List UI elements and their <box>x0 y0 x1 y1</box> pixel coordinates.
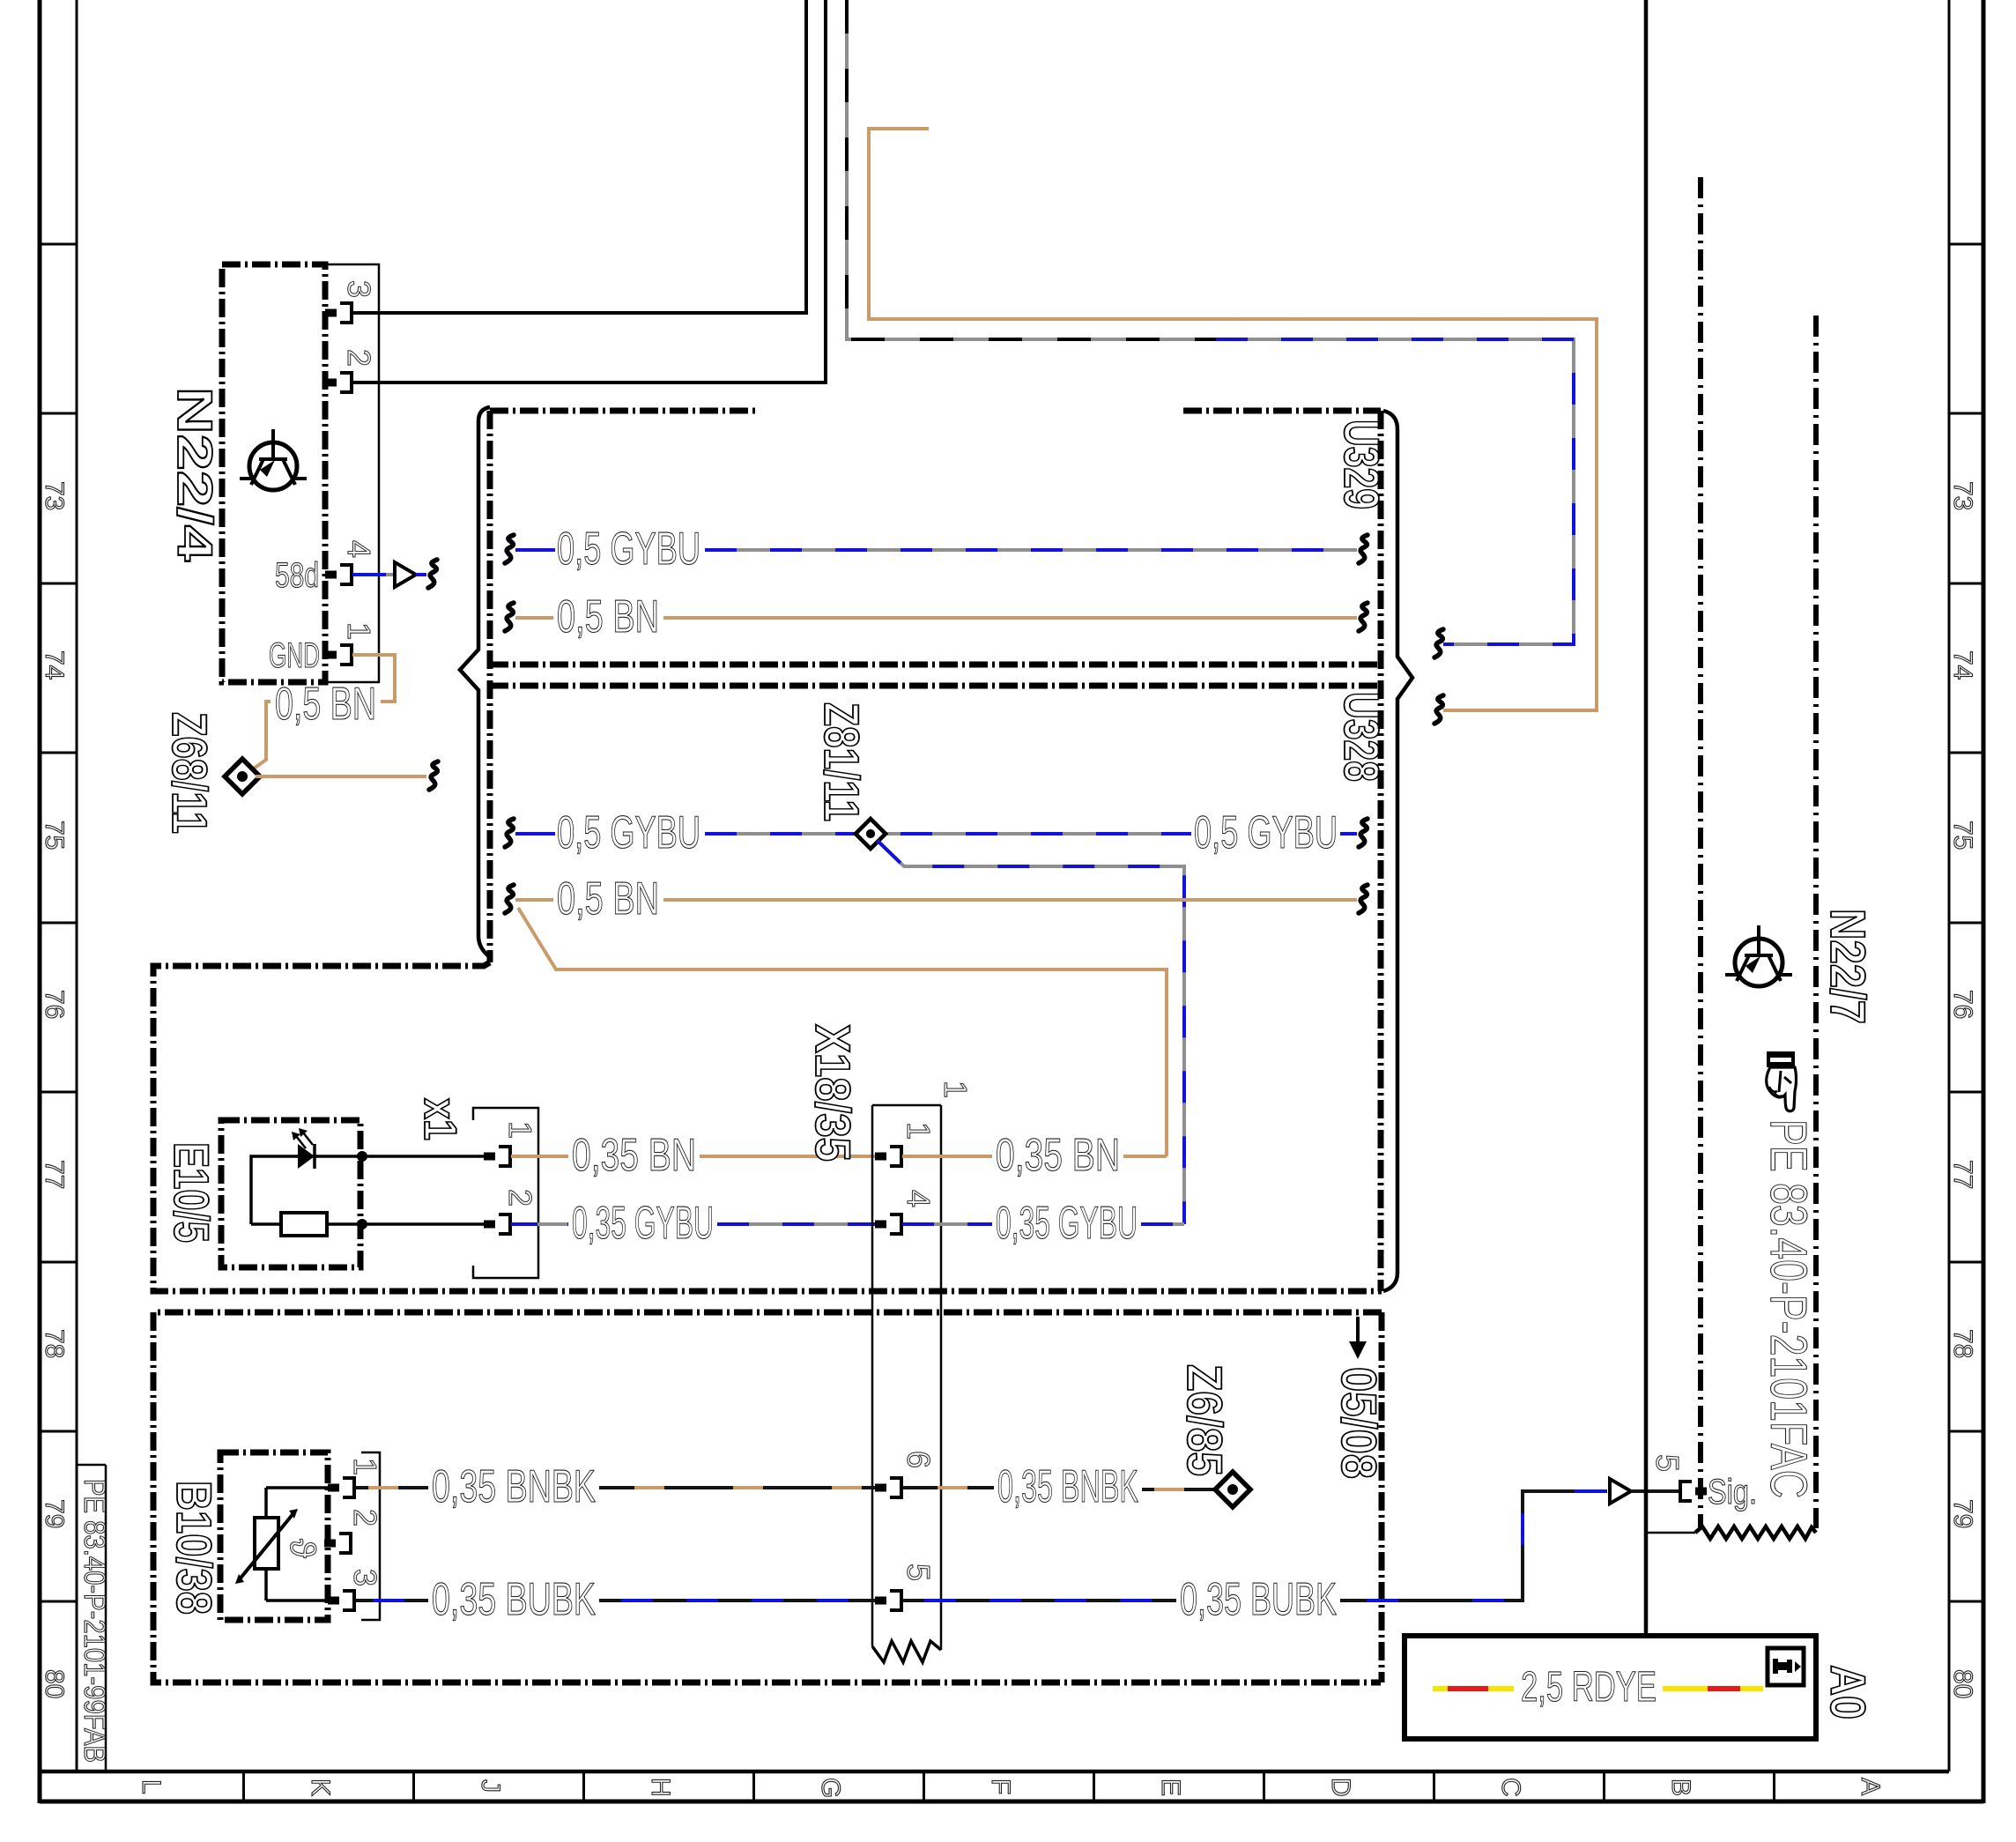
ground connector Z68/11 <box>162 712 438 834</box>
svg-text:05/08: 05/08 <box>1331 1367 1387 1479</box>
svg-text:0,35 BUBK: 0,35 BUBK <box>1180 1574 1337 1625</box>
LED branch <box>251 1156 362 1224</box>
svg-text:0,5 GYBU: 0,5 GYBU <box>557 807 700 858</box>
wire BN from top (brown) <box>869 129 1597 724</box>
svg-text:N22/4: N22/4 <box>167 387 223 561</box>
svg-text:GND: GND <box>269 636 320 675</box>
dash-dot frame (upper equipment area) <box>153 962 1382 1291</box>
svg-text:76: 76 <box>40 990 69 1019</box>
connector x1 <box>414 1098 538 1278</box>
svg-text:B: B <box>1666 1779 1695 1796</box>
wire 0,35 BN from x1 pin1 to X18/35 pin1 <box>511 1130 875 1181</box>
legend box A0 (wire colour sample 2,5 RDYE) <box>1405 1636 1876 1739</box>
indicator lamp symbol (transistor-style pictogram) <box>240 429 307 490</box>
svg-text:0,5 BN: 0,5 BN <box>557 873 659 925</box>
svg-text:ϑ: ϑ <box>283 1539 322 1558</box>
NTC resistor with arrow <box>264 1488 268 1601</box>
svg-text:G: G <box>816 1778 845 1798</box>
svg-text:0,35 GYBU: 0,35 GYBU <box>996 1198 1138 1249</box>
svg-text:74: 74 <box>1948 650 1977 680</box>
svg-text:K: K <box>306 1779 335 1796</box>
svg-text:79: 79 <box>1948 1499 1977 1528</box>
svg-text:0,5 BN: 0,5 BN <box>557 591 659 642</box>
svg-text:X18/35: X18/35 <box>805 1024 861 1162</box>
left brace of harness frames <box>460 407 490 957</box>
svg-text:1: 1 <box>341 622 377 640</box>
wire 0,5 BN inside U328 <box>505 873 1367 925</box>
shared dash-dot edges of harness frames <box>490 411 1381 1291</box>
svg-text:2: 2 <box>502 1189 538 1207</box>
svg-text:0,5 BN: 0,5 BN <box>275 679 376 730</box>
wire 0,5 GYBU inside U329 <box>505 524 1367 575</box>
svg-text:2,5 RDYE: 2,5 RDYE <box>1521 1664 1657 1711</box>
resistor branch <box>251 1222 362 1226</box>
svg-text:3: 3 <box>341 280 377 298</box>
svg-text:0,35 BUBK: 0,35 BUBK <box>432 1574 596 1625</box>
svg-text:2: 2 <box>341 349 377 367</box>
connector strip of N22/4 <box>325 264 379 682</box>
svg-text:75: 75 <box>1948 821 1977 850</box>
svg-text:0,35 BNBK: 0,35 BNBK <box>432 1461 596 1512</box>
wire 0,35 BNBK from X18/35 pin6 to Z6/85 <box>902 1461 1217 1512</box>
wire 0,5 BN inside U329 <box>505 591 1367 642</box>
wires to connector x1 <box>362 1155 484 1158</box>
svg-text:5: 5 <box>1649 1454 1686 1472</box>
pin 3 <box>325 303 352 323</box>
wire from N22/4 pin 3 (black) up to top edge <box>352 0 806 313</box>
document number box <box>77 1465 111 1771</box>
svg-text:A: A <box>1856 1778 1885 1795</box>
svg-text:77: 77 <box>1948 1160 1977 1189</box>
svg-text:73: 73 <box>40 481 69 510</box>
svg-text:79: 79 <box>40 1499 69 1528</box>
connector bracket <box>361 1452 380 1620</box>
svg-text:A0: A0 <box>1820 1665 1876 1719</box>
control unit N22/4 (instrument cluster) dash-dot housing <box>167 264 379 682</box>
svg-text:E10/5: E10/5 <box>164 1142 219 1243</box>
sheet reference 05/08 with arrow <box>1331 1317 1387 1479</box>
svg-text:0,35 BN: 0,35 BN <box>996 1130 1120 1181</box>
svg-text:1: 1 <box>938 1081 974 1098</box>
svg-text:Z6/85: Z6/85 <box>1177 1364 1233 1476</box>
pin 4 / terminal 58d <box>325 565 352 584</box>
wire 0,35 BUBK from X18/35 pin5 to N22/7 pin5 <box>902 1479 1680 1625</box>
harness frame U329 <box>490 411 1390 665</box>
svg-text:Z81/11: Z81/11 <box>814 702 870 821</box>
svg-text:C: C <box>1496 1778 1525 1797</box>
pin 1 / GND <box>325 645 352 665</box>
svg-text:3: 3 <box>347 1569 383 1586</box>
svg-text:1: 1 <box>901 1122 937 1140</box>
wire 0,35 BNBK from B10/38 pin1 to X18/35 pin6 <box>355 1461 875 1512</box>
svg-text:Z68/11: Z68/11 <box>162 712 218 834</box>
svg-text:x1: x1 <box>414 1098 465 1140</box>
svg-text:75: 75 <box>40 821 69 850</box>
svg-text:H: H <box>646 1778 675 1797</box>
svg-text:78: 78 <box>40 1329 69 1358</box>
connector Z81/11 <box>814 702 886 849</box>
info pictogram <box>1768 1648 1804 1685</box>
wire from Z68/11 to break <box>256 775 426 778</box>
branch wire BN from U328 down to X18/35 pin 1 <box>518 908 1167 1156</box>
svg-text:D: D <box>1326 1778 1355 1797</box>
svg-text:N22/7: N22/7 <box>1820 909 1876 1024</box>
svg-text:4: 4 <box>341 540 377 558</box>
svg-text:58d: 58d <box>275 556 319 595</box>
lamp E10/5 <box>164 1120 484 1267</box>
svg-text:1: 1 <box>347 1458 383 1475</box>
svg-text:0,5 GYBU: 0,5 GYBU <box>1194 807 1338 858</box>
svg-text:0,5 GYBU: 0,5 GYBU <box>557 524 700 575</box>
svg-text:76: 76 <box>1948 990 1977 1019</box>
svg-text:4: 4 <box>901 1190 937 1207</box>
connector X18/35 <box>805 1024 974 1662</box>
ground wire 0,5 BN from N22/4 pin1 to Z68/11 <box>248 655 395 773</box>
wire 0,35 BUBK from B10/38 pin3 to X18/35 pin5 <box>355 1574 875 1625</box>
svg-text:PE 83.40-P-2101FAC: PE 83.40-P-2101FAC <box>1760 1119 1817 1498</box>
svg-text:F: F <box>986 1779 1015 1794</box>
svg-text:Sig.: Sig. <box>1708 1473 1757 1511</box>
junction dots <box>357 1151 367 1162</box>
svg-text:74: 74 <box>40 650 69 680</box>
wire 0,35 GYBU from x1 pin2 to X18/35 pin4 <box>511 1198 875 1249</box>
wire 0,35 GYBU from X18/35 pin4 to Z81/11 branch <box>902 1198 1184 1249</box>
svg-text:6: 6 <box>901 1451 937 1468</box>
pin 2 <box>325 373 352 392</box>
wire 0,5 GYBU inside U328 through Z81/11 <box>505 807 1367 858</box>
svg-text:78: 78 <box>1948 1329 1977 1358</box>
svg-text:PE 83.40-P-2101-99FAB: PE 83.40-P-2101-99FAB <box>78 1479 111 1763</box>
svg-text:1: 1 <box>502 1121 538 1139</box>
svg-text:2: 2 <box>347 1509 383 1526</box>
control unit N22/7 (partially shown) <box>1646 0 1876 1636</box>
svg-text:80: 80 <box>40 1669 69 1698</box>
wire terminal 58d with direction arrow and break <box>352 560 437 588</box>
svg-text:0,35 GYBU: 0,35 GYBU <box>572 1198 714 1249</box>
dash-dot frame (lower equipment area 05/08) <box>153 1312 1382 1682</box>
pointing-hand info icon <box>1767 1051 1797 1111</box>
branch wire GYBU from Z81/11 down to X18/35 pin 4 <box>878 841 1184 1224</box>
wire from N22/4 pin 2 (black) up to top edge <box>352 0 826 383</box>
wires to pins <box>266 1486 328 1489</box>
svg-text:J: J <box>476 1779 505 1793</box>
svg-text:5: 5 <box>901 1563 937 1581</box>
svg-text:L: L <box>137 1779 166 1794</box>
svg-text:E: E <box>1156 1779 1185 1796</box>
indicator lamp pictogram <box>1725 925 1792 986</box>
svg-text:80: 80 <box>1948 1669 1977 1698</box>
wire GYBU from top edge (gray with black/blue dashes) <box>847 0 1574 657</box>
svg-text:0,35 BNBK: 0,35 BNBK <box>997 1461 1138 1512</box>
svg-text:B10/38: B10/38 <box>167 1481 222 1615</box>
wire 0,35 BN from X18/35 pin1 up into U328 <box>902 1130 1167 1181</box>
svg-text:73: 73 <box>1948 481 1977 510</box>
svg-text:77: 77 <box>40 1160 69 1189</box>
svg-text:0,35 BN: 0,35 BN <box>572 1130 696 1181</box>
harness frame U328 <box>490 686 1390 782</box>
right brace of harness frames <box>1383 411 1412 1291</box>
pin 5 Sig. <box>1680 1482 1707 1501</box>
ground connector Z6/85 <box>1177 1364 1250 1507</box>
temperature sensor B10/38 <box>167 1452 383 1620</box>
